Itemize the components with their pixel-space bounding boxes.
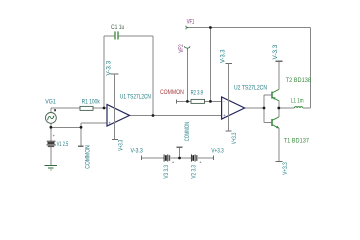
svg-text:R2 3.9: R2 3.9: [191, 91, 204, 97]
svg-text:V2 3.3: V2 3.3: [191, 164, 197, 178]
svg-text:V-3.3: V-3.3: [106, 60, 112, 75]
svg-text:VF2: VF2: [179, 44, 185, 53]
svg-text:V3 3.3: V3 3.3: [164, 164, 170, 178]
svg-text:V-3.3: V-3.3: [273, 44, 279, 59]
svg-text:COMMON: COMMON: [185, 122, 191, 141]
svg-text:V-3.3: V-3.3: [220, 49, 226, 63]
svg-text:V+3.3: V+3.3: [211, 149, 224, 155]
svg-text:V+3.3: V+3.3: [232, 132, 238, 144]
svg-text:T1 BD137: T1 BD137: [284, 139, 310, 145]
svg-text:U2 TS27L2CN: U2 TS27L2CN: [234, 86, 267, 92]
svg-text:L1 1m: L1 1m: [291, 99, 304, 105]
svg-text:V+3.3: V+3.3: [118, 139, 124, 150]
svg-text:+: +: [108, 121, 111, 126]
svg-text:C1 1u: C1 1u: [111, 25, 124, 31]
svg-text:VF1: VF1: [187, 19, 195, 25]
svg-text:COMMON: COMMON: [160, 90, 184, 96]
svg-text:V+3.3: V+3.3: [283, 162, 289, 175]
svg-text:V1 2.5: V1 2.5: [57, 142, 69, 148]
svg-text:V-3.3: V-3.3: [131, 149, 144, 155]
svg-text:+: +: [223, 113, 226, 118]
svg-text:T2 BD138: T2 BD138: [286, 78, 312, 84]
svg-text:COMMON: COMMON: [85, 145, 91, 169]
svg-text:VG1: VG1: [45, 99, 56, 105]
svg-text:R1 100k: R1 100k: [82, 100, 101, 106]
svg-text:U1 TS27L2CN: U1 TS27L2CN: [120, 95, 151, 101]
